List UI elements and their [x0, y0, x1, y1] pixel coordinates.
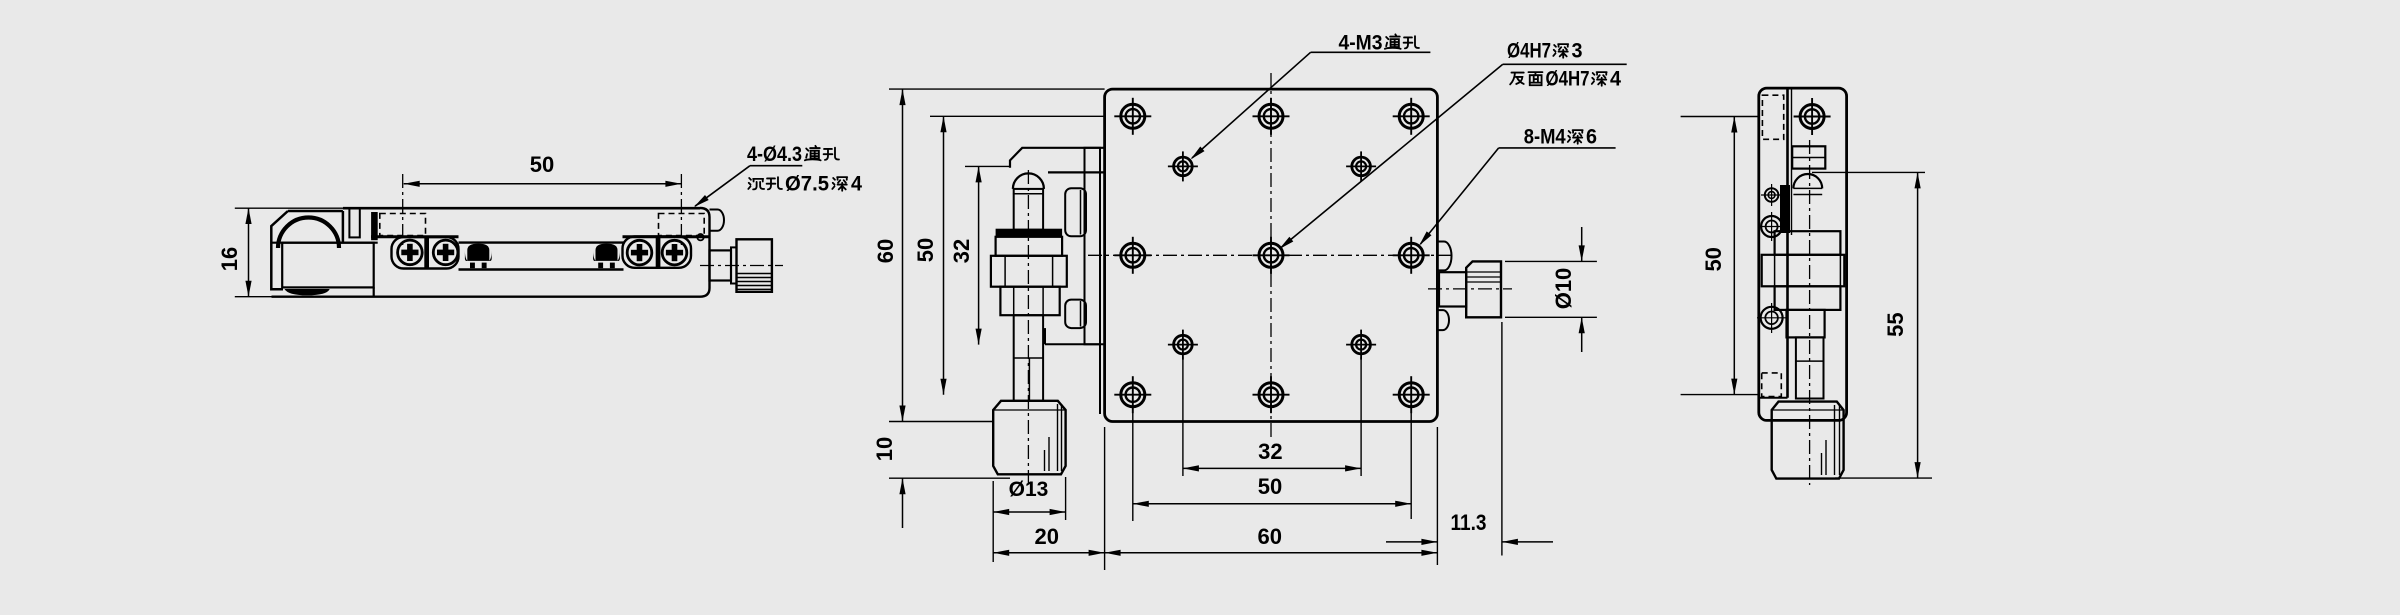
v1 screw plate left	[392, 237, 459, 269]
v2 bracket bar	[1085, 148, 1101, 344]
v1 moving plate top edge	[343, 207, 700, 210]
v1 bracket foot (black lens)	[285, 289, 330, 295]
v2 right axis centerline	[1428, 288, 1512, 290]
dimension 50 vert line	[943, 116, 945, 394]
v2 bottom knob knurl	[1057, 404, 1059, 471]
v1 hole centerline right	[680, 174, 682, 247]
v2 M4 mounting hole 2	[1259, 104, 1283, 128]
v1 bottom edge extension line	[235, 296, 272, 298]
v2 M3 through hole 1	[1174, 157, 1193, 176]
svg-text:10: 10	[872, 437, 897, 461]
dimension 16 line	[248, 208, 250, 297]
v1 tab black bar	[371, 212, 378, 240]
v1 rail bottom line	[459, 268, 624, 270]
svg-text:60: 60	[873, 239, 898, 263]
v2 main plate 60x60	[1105, 89, 1438, 421]
v2 M4 mounting hole 8	[1399, 383, 1423, 407]
v3 dome	[1793, 174, 1822, 188]
v1 top-right cylinder	[710, 210, 724, 231]
dimension 50 v3 line	[1733, 117, 1735, 395]
label reverse O4H7 depth 4	[1510, 73, 1524, 85]
svg-text:8-M4: 8-M4	[1524, 126, 1566, 149]
screw S4	[662, 240, 687, 265]
v3 ring hole upper	[1761, 216, 1782, 237]
v1 top edge extension line	[235, 207, 377, 209]
leader 4-M3 line	[1311, 51, 1431, 53]
v2 M4 mounting hole 7	[1259, 383, 1283, 407]
v3 inner edge thin	[1791, 88, 1793, 235]
dimension 50 line (v1)	[404, 183, 682, 185]
v2 vertical centerline	[1270, 73, 1272, 437]
v2 right bump lower	[1437, 310, 1449, 330]
v1 hidden counterbore left (dashed)	[380, 214, 426, 236]
svg-text:Ø7.5: Ø7.5	[785, 173, 829, 196]
v1 drive shaft	[710, 250, 732, 280]
v1 knob	[737, 239, 772, 291]
svg-text:6: 6	[1586, 126, 1597, 149]
dimension O10 ext lines	[1505, 260, 1597, 262]
svg-text:50: 50	[913, 238, 938, 262]
v1 shaft spacer	[731, 247, 737, 283]
v2 bearing block 3	[1000, 287, 1059, 316]
svg-text:4-M3: 4-M3	[1339, 32, 1383, 55]
view1: left side view of linear stage	[217, 143, 862, 297]
v2 M3 through hole 2	[1352, 157, 1371, 176]
v1 stage right end block	[700, 208, 710, 297]
v1 base left edge	[373, 287, 375, 297]
v2 bearing block 2	[991, 256, 1067, 287]
v3 mounting hole top	[1800, 105, 1824, 129]
svg-text:50: 50	[530, 152, 554, 177]
svg-text:50: 50	[1701, 247, 1726, 271]
v2 horizontal centerline	[1088, 254, 1456, 256]
svg-text:Ø4H7: Ø4H7	[1507, 40, 1551, 63]
v3 ext line 55 top	[1812, 171, 1925, 173]
v1 moving plate bottom edge left	[371, 235, 459, 238]
v3 ext line 50 bottom	[1681, 394, 1759, 396]
v2 M3 through hole 3	[1174, 335, 1193, 354]
v3 bottom knob	[1772, 402, 1844, 479]
v1 bracket roller arc	[278, 218, 339, 249]
dimension 10 line	[902, 478, 904, 528]
v1 bracket lower box	[282, 243, 374, 288]
v2 bracket bar lower edge	[1099, 344, 1101, 414]
v3 bearing block B	[1762, 255, 1845, 286]
v3 inner edge thick	[1786, 88, 1789, 398]
svg-text:20: 20	[1035, 524, 1059, 549]
v2 ext line plate bottom left	[889, 421, 993, 423]
v3 top block	[1792, 146, 1825, 168]
v2 right knob knurl	[1468, 271, 1501, 273]
v3 main plate	[1759, 88, 1847, 420]
screw S1	[398, 240, 423, 265]
v3 ext line 50 top	[1681, 116, 1759, 118]
v2 ext vline knob flange	[1501, 322, 1503, 556]
svg-text:4: 4	[1610, 68, 1621, 91]
v1 screw joint bar left	[424, 237, 429, 269]
v2 M4 mounting hole 3	[1399, 104, 1423, 128]
dimension O10 line	[1581, 227, 1583, 261]
v3 hidden hole top (dashed)	[1762, 95, 1783, 139]
dimension 11.3 arrows	[1386, 541, 1437, 543]
v2 ext line knob bottom	[889, 477, 1010, 479]
svg-text:55: 55	[1883, 312, 1908, 336]
dimension 20 line	[993, 552, 1104, 554]
dimension 55 line	[1917, 172, 1919, 478]
view2: top plan view	[872, 32, 1627, 571]
v3 black wedge	[1780, 185, 1790, 233]
svg-text:3: 3	[1572, 40, 1583, 63]
v3 bearing block D	[1787, 310, 1825, 338]
v2 bracket lower step	[1044, 328, 1046, 344]
v3 knob knurl	[1834, 405, 1836, 475]
v2 knob shaft upper	[1014, 189, 1043, 230]
v3 shaft	[1796, 337, 1824, 398]
v1 screw joint bar right	[656, 237, 661, 268]
screw S2	[433, 240, 458, 265]
v1 clamp left (black)	[467, 244, 489, 261]
v1 moving plate bottom edge right	[623, 235, 710, 238]
svg-text:4-Ø4.3: 4-Ø4.3	[747, 143, 802, 166]
v2 right bump upper	[1437, 242, 1451, 271]
v2 bearing block 1	[996, 237, 1063, 256]
v3 column bottom line	[1759, 397, 1788, 399]
v2 M4 mounting hole 1	[1121, 104, 1145, 128]
v3 bearing block A	[1775, 231, 1841, 255]
v1 hidden counterbore right (dashed)	[659, 214, 705, 236]
v3 hidden hole bottom (dashed)	[1762, 373, 1782, 397]
v2 M4 mounting hole 4	[1121, 243, 1145, 267]
v2 center pin hole O4H7	[1259, 243, 1283, 267]
dimension 32 vert line	[978, 166, 980, 344]
v2 ext vline knob left	[992, 481, 994, 562]
v3 small hole	[1765, 188, 1779, 202]
v2 ext vline M3 col right	[1360, 357, 1362, 476]
v1 screw plate right	[623, 237, 692, 268]
v2 right shaft	[1439, 272, 1466, 306]
v2 knob dome tip	[1013, 173, 1044, 189]
svg-text:4: 4	[851, 173, 862, 196]
v2 ext line top (60)	[889, 88, 1105, 90]
v3 ring hole lower	[1761, 307, 1783, 329]
svg-text:16: 16	[217, 247, 242, 271]
v2 knob shaft lower	[1014, 315, 1043, 401]
v2 tab upper	[1065, 188, 1086, 236]
svg-text:Ø10: Ø10	[1551, 268, 1576, 310]
v3 ext line 55 bottom	[1835, 477, 1932, 479]
dimension O13 line	[993, 511, 1065, 513]
label counterbore O7.5 depth 4	[748, 178, 764, 189]
v3 bearing block C	[1775, 286, 1841, 310]
dimension 60 vert line	[902, 89, 904, 421]
dimension 60 bottom line	[1105, 552, 1438, 554]
v2 ext line 32 top	[965, 165, 1010, 167]
v2 bracket arm	[1010, 148, 1105, 173]
screw S3	[627, 240, 652, 265]
v1 hole centerline left	[402, 174, 404, 247]
v1 rail top line	[459, 241, 624, 243]
v2 ext line 50 top	[930, 115, 1105, 117]
dimension 32 bottom line	[1183, 467, 1361, 469]
v3 axis centerline	[1809, 140, 1811, 485]
svg-text:32: 32	[1258, 439, 1282, 464]
svg-text:32: 32	[949, 239, 974, 263]
v2 ext vline knob right	[1065, 477, 1067, 520]
v2 ext vline hole col right	[1410, 408, 1412, 519]
v1 axis centerline	[700, 265, 783, 267]
leader 8-M4 line	[1499, 147, 1616, 149]
v2 bearing band (black)	[996, 229, 1063, 237]
v1 bracket step line	[271, 242, 377, 244]
v2 knob axis centerline	[1027, 170, 1029, 485]
v2 M3 through hole 4	[1352, 335, 1371, 354]
v1 upright tab	[349, 208, 359, 237]
v2 M4 mounting hole 5	[1399, 243, 1423, 267]
v2 tab lower	[1065, 300, 1086, 329]
v1 clamp right (black)	[596, 244, 618, 261]
leader 4-O4.3 line	[750, 165, 802, 167]
svg-text:Ø13: Ø13	[1009, 478, 1049, 501]
v2 ext vline plate left bottom	[1104, 427, 1106, 570]
svg-text:Ø4H7: Ø4H7	[1546, 68, 1590, 91]
v2 ext vline plate right bottom	[1436, 427, 1438, 565]
v1 pin hole circle	[697, 234, 703, 240]
leader O4H7 line	[1503, 63, 1627, 65]
v2 ext vline M3 col left	[1182, 357, 1184, 476]
v1 left bracket outline	[271, 211, 343, 289]
v1 knob knurl lines	[738, 273, 772, 275]
svg-text:11.3: 11.3	[1451, 510, 1487, 535]
v2 bottom knob	[993, 401, 1065, 475]
v1 base bottom edge	[272, 296, 701, 298]
svg-text:50: 50	[1258, 474, 1282, 499]
v2 ext vline hole col left	[1132, 408, 1134, 521]
svg-text:60: 60	[1257, 524, 1281, 549]
v2 M4 mounting hole 6	[1121, 383, 1145, 407]
view3: right side view	[1681, 88, 1932, 485]
dimension 50 bottom line	[1133, 503, 1411, 505]
v2 right knob	[1466, 261, 1501, 317]
